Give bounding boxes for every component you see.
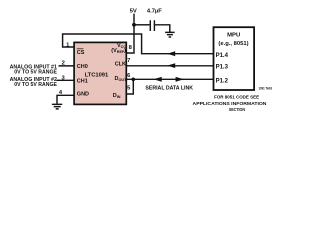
svg-text:FOR 8051 CODE SEE: FOR 8051 CODE SEE — [214, 94, 260, 100]
svg-text:(e.g., 8051): (e.g., 8051) — [218, 41, 248, 47]
svg-text:P1.3: P1.3 — [216, 65, 229, 71]
svg-text:7: 7 — [127, 58, 130, 64]
svg-text:CLK: CLK — [115, 61, 126, 67]
svg-text:SERIAL DATA LINK: SERIAL DATA LINK — [145, 85, 193, 91]
svg-text:SECTION: SECTION — [229, 107, 246, 112]
svg-text:CH0: CH0 — [77, 64, 88, 70]
svg-text:CH1: CH1 — [77, 79, 88, 85]
svg-text:4.7µF: 4.7µF — [147, 8, 162, 14]
svg-text:P1.2: P1.2 — [216, 78, 229, 84]
svg-text:LTC1091: LTC1091 — [85, 73, 109, 79]
svg-text:0V TO 5V RANGE: 0V TO 5V RANGE — [14, 82, 57, 88]
svg-text:0V TO 5V RANGE: 0V TO 5V RANGE — [14, 69, 57, 75]
svg-text:1091 TA03: 1091 TA03 — [259, 86, 273, 90]
svg-text:CS: CS — [77, 50, 85, 56]
svg-text:MPU: MPU — [227, 33, 240, 39]
svg-text:2: 2 — [62, 60, 65, 66]
svg-text:P1.4: P1.4 — [216, 53, 229, 59]
svg-text:5V: 5V — [130, 8, 137, 14]
svg-text:APPLICATIONS INFORMATION: APPLICATIONS INFORMATION — [193, 101, 267, 107]
svg-text:GND: GND — [77, 92, 89, 98]
